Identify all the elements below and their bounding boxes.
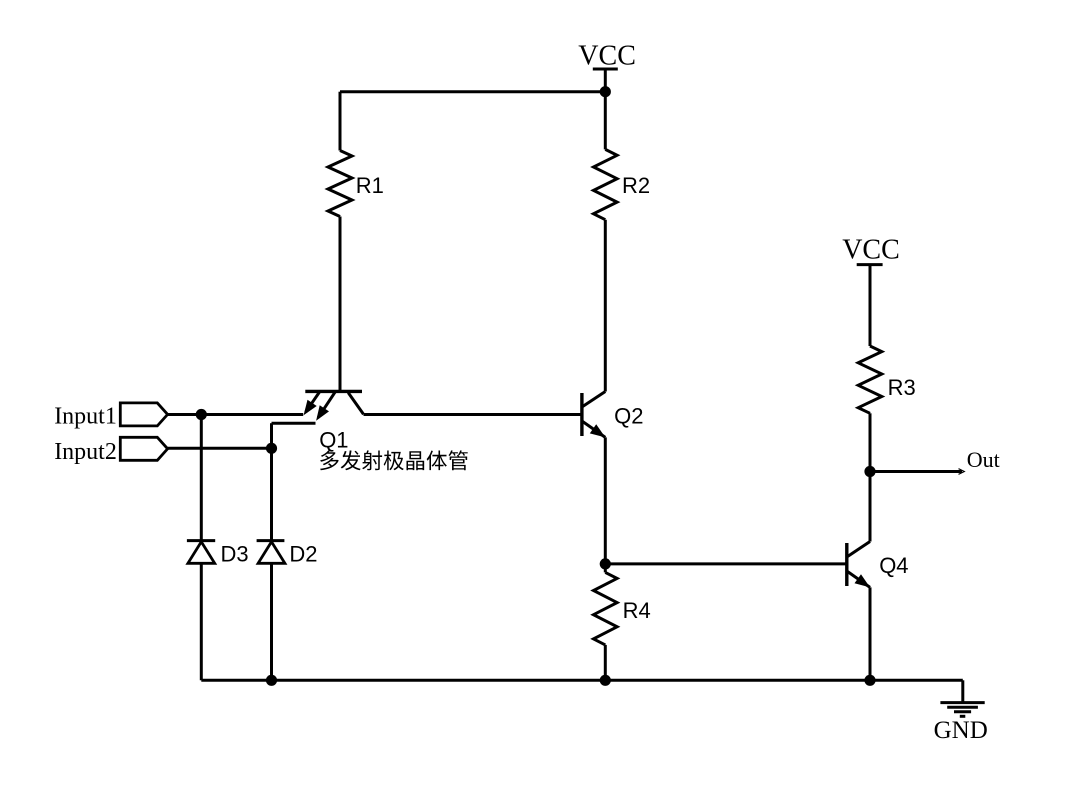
svg-text:Out: Out [967,447,1000,472]
svg-text:R1: R1 [356,173,384,198]
svg-text:Q1: Q1 [319,427,348,452]
svg-text:Input2: Input2 [54,439,117,465]
svg-text:R2: R2 [622,173,650,198]
svg-text:GND: GND [934,717,988,744]
svg-text:D3: D3 [221,542,249,567]
svg-text:Q4: Q4 [879,553,908,578]
svg-text:Input1: Input1 [54,404,117,430]
svg-text:VCC: VCC [842,235,900,266]
svg-text:R4: R4 [623,598,651,623]
svg-text:R3: R3 [888,375,916,400]
svg-text:VCC: VCC [578,40,636,71]
svg-text:Q2: Q2 [614,403,643,428]
svg-text:D2: D2 [289,542,317,567]
